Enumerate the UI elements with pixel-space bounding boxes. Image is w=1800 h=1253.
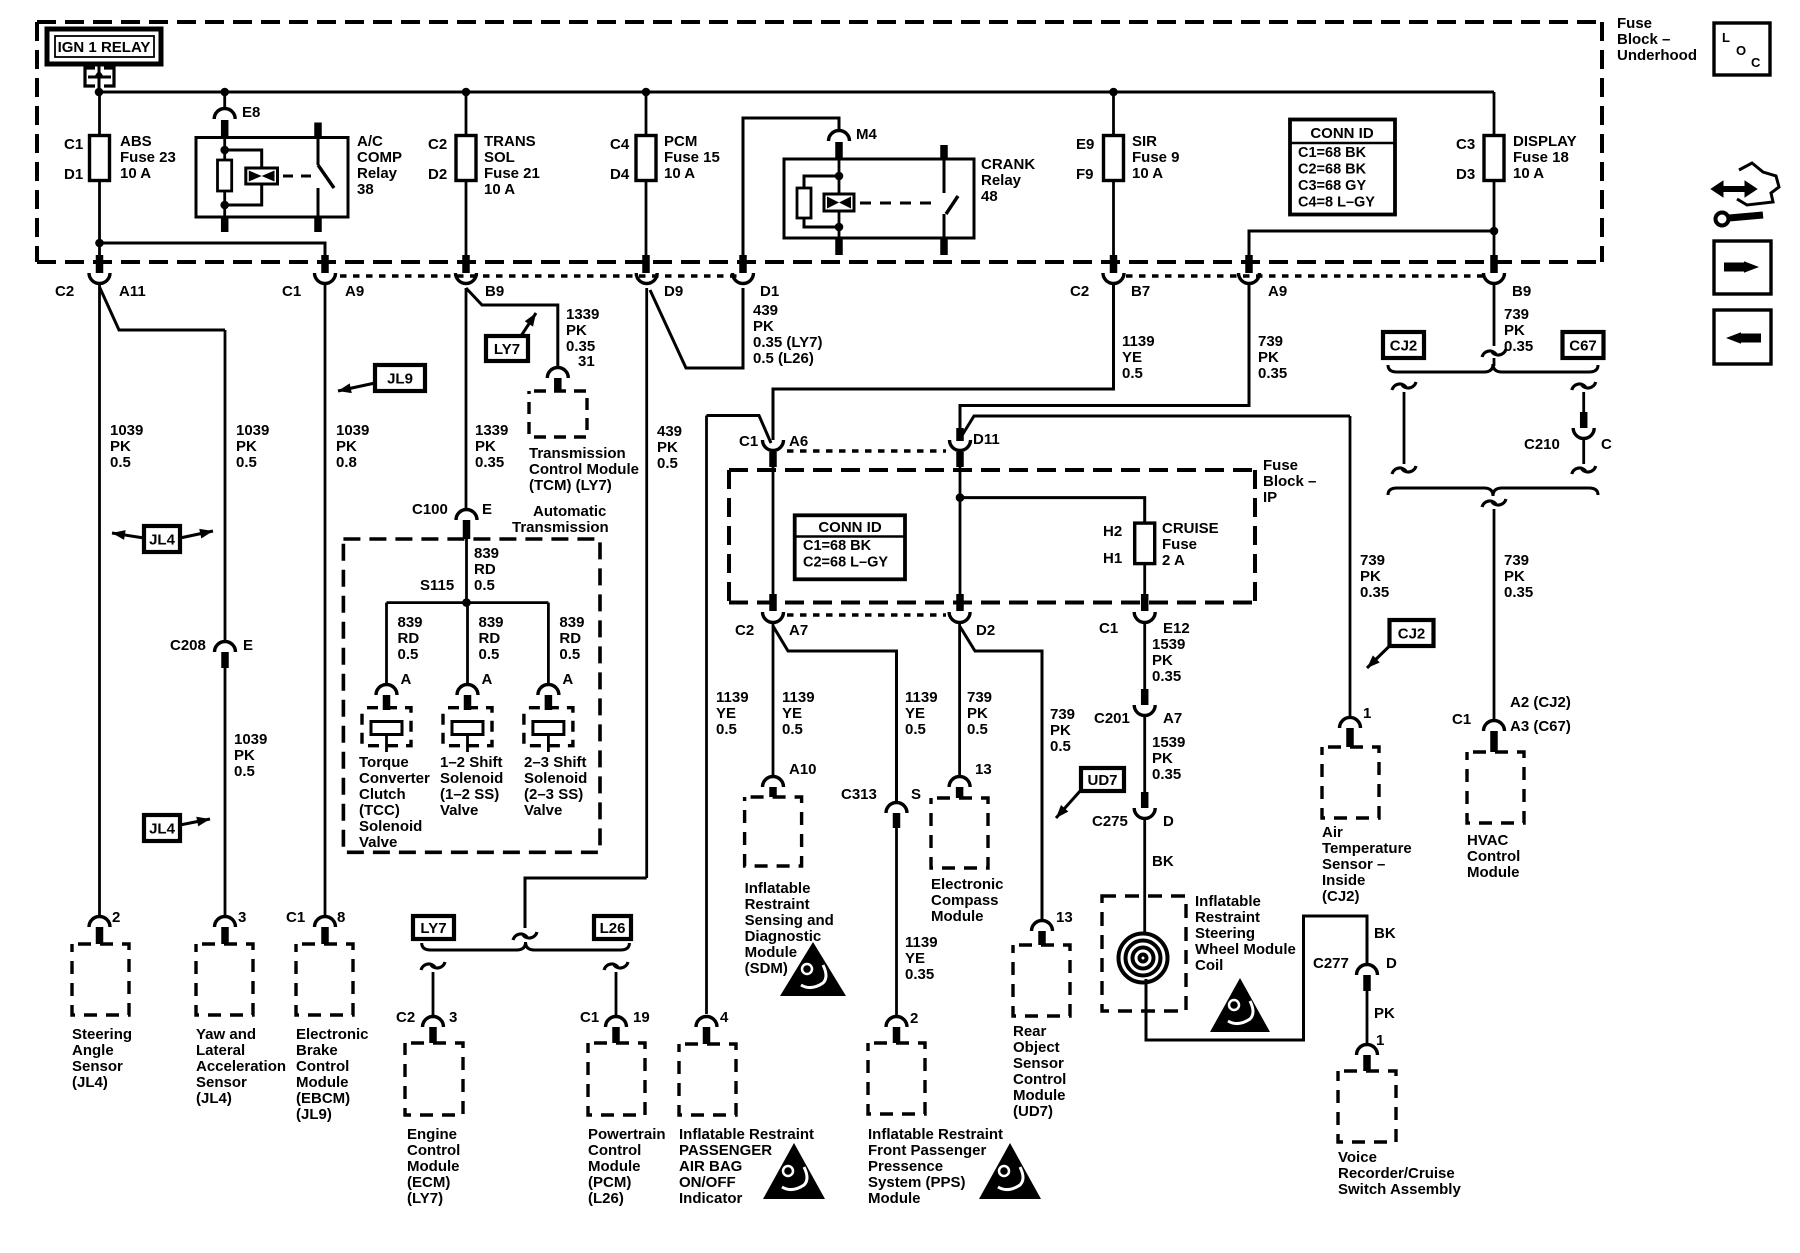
svg-text:PK: PK: [1504, 568, 1525, 585]
svg-text:Brake: Brake: [296, 1042, 338, 1059]
wire bus to PCM fuse: [645, 92, 648, 255]
svg-text:LY7: LY7: [420, 920, 446, 937]
svg-text:2 A: 2 A: [1162, 552, 1185, 569]
svg-text:(PCM): (PCM): [588, 1174, 631, 1191]
svg-text:Valve: Valve: [524, 802, 562, 819]
module Yaw and Lateral Acceleration Sensor: [196, 944, 253, 1015]
svg-text:C1: C1: [580, 1009, 599, 1026]
svg-text:Solenoid: Solenoid: [359, 818, 422, 835]
fuse SIR Fuse 9 10A: [1104, 136, 1124, 181]
svg-text:C1=68 BK: C1=68 BK: [803, 538, 872, 554]
svg-text:0.5: 0.5: [234, 763, 255, 780]
svg-text:Diagnostic: Diagnostic: [745, 928, 822, 945]
svg-text:739: 739: [967, 689, 992, 706]
svg-text:D9: D9: [664, 283, 683, 300]
svg-text:C100: C100: [412, 501, 448, 518]
svg-text:0.8: 0.8: [336, 454, 357, 471]
JL4 tag 2 with arrow: [144, 815, 180, 841]
svg-text:48: 48: [981, 188, 998, 205]
svg-text:Control: Control: [296, 1058, 349, 1075]
svg-text:Temperature: Temperature: [1322, 840, 1412, 857]
IGN 1 RELAY label box: [47, 29, 161, 64]
svg-text:RD: RD: [559, 630, 581, 647]
CJ2 tag box: [1383, 332, 1424, 358]
junction S115: [462, 598, 471, 607]
UD7 tag with arrow: [1081, 768, 1124, 791]
CRANK relay pins: [940, 145, 948, 159]
wire M4 feed: [743, 118, 839, 255]
fuse PCM Fuse 15 10A: [636, 136, 656, 181]
svg-text:Clutch: Clutch: [359, 786, 406, 803]
junction dot DISPLAY output: [1490, 227, 1499, 236]
svg-text:0.5: 0.5: [782, 721, 803, 738]
module PPS: [868, 1043, 925, 1114]
svg-text:O: O: [1736, 43, 1746, 58]
svg-text:Module: Module: [745, 944, 798, 961]
svg-text:739: 739: [1360, 552, 1385, 569]
brace LY7 L26 split: [422, 942, 630, 950]
svg-text:PK: PK: [236, 438, 257, 455]
svg-text:0.35: 0.35: [1504, 338, 1533, 355]
svg-text:1539: 1539: [1152, 734, 1185, 751]
svg-text:A3 (C67): A3 (C67): [1510, 718, 1571, 735]
wire ignition feed bus: [99, 91, 1494, 94]
svg-text:C201: C201: [1094, 710, 1130, 727]
connector M4: [829, 131, 850, 142]
relay A/C COMP Relay 38 box: [196, 138, 348, 218]
svg-text:Solenoid: Solenoid: [440, 770, 503, 787]
CONN ID table underhood: [1290, 120, 1395, 215]
wire C100 to S115: [465, 539, 468, 603]
svg-text:Inflatable Restraint: Inflatable Restraint: [679, 1126, 814, 1143]
svg-text:C210: C210: [1524, 436, 1560, 453]
svg-text:Rear: Rear: [1013, 1023, 1047, 1040]
svg-text:PK: PK: [1152, 750, 1173, 767]
wire D2 branch to rear object sensor: [960, 626, 1042, 919]
wire cruise fuse to E12: [1143, 564, 1146, 598]
svg-text:H1: H1: [1103, 550, 1122, 567]
svg-text:Pressence: Pressence: [868, 1158, 943, 1175]
svg-text:HVAC: HVAC: [1467, 832, 1509, 849]
svg-text:739: 739: [1504, 552, 1529, 569]
svg-text:C275: C275: [1092, 813, 1128, 830]
svg-text:PCM: PCM: [664, 133, 697, 150]
connector A9 ip: [1239, 273, 1260, 284]
fuse DISPLAY Fuse 18 10A: [1484, 136, 1504, 181]
warning triangle coil: [1210, 978, 1270, 1032]
svg-text:Steering: Steering: [72, 1026, 132, 1043]
junction dot cruise feed: [956, 493, 965, 502]
svg-text:D1: D1: [64, 166, 83, 183]
wire brace to ECM: [431, 962, 445, 968]
svg-text:YE: YE: [716, 705, 736, 722]
svg-text:Underhood: Underhood: [1617, 47, 1697, 64]
svg-text:Fuse 18: Fuse 18: [1513, 149, 1569, 166]
svg-text:Module: Module: [296, 1074, 349, 1091]
svg-text:D3: D3: [1456, 166, 1475, 183]
svg-text:10 A: 10 A: [484, 181, 515, 198]
svg-text:(JL9): (JL9): [296, 1106, 332, 1123]
svg-text:C1: C1: [739, 433, 758, 450]
svg-text:Inside: Inside: [1322, 872, 1365, 889]
svg-text:839: 839: [474, 545, 499, 562]
wire C275 BK to coil: [1143, 820, 1146, 934]
svg-text:Compass: Compass: [931, 892, 999, 909]
dotted connector row A7 D2: [787, 613, 946, 616]
svg-text:Engine: Engine: [407, 1126, 457, 1143]
svg-text:PK: PK: [110, 438, 131, 455]
LY7 tag with arrow: [486, 336, 528, 361]
svg-text:CONN ID: CONN ID: [1310, 125, 1374, 142]
svg-text:Sensor: Sensor: [1013, 1055, 1064, 1072]
module Steering Angle Sensor: [72, 944, 129, 1015]
svg-text:C313: C313: [841, 786, 877, 803]
service tool icon: [1713, 163, 1779, 226]
L26 tag: [594, 916, 631, 939]
svg-text:Steering: Steering: [1195, 925, 1255, 942]
svg-text:CJ2: CJ2: [1398, 626, 1426, 643]
svg-text:E8: E8: [242, 104, 260, 121]
svg-text:3: 3: [449, 1009, 457, 1026]
relay CRANK Relay 48 box: [784, 159, 974, 238]
svg-text:Sensor: Sensor: [72, 1058, 123, 1075]
svg-text:D2: D2: [976, 622, 995, 639]
terminal A 2-3 shift solenoid: [538, 685, 559, 696]
svg-text:C1: C1: [282, 283, 301, 300]
svg-text:COMP: COMP: [357, 149, 402, 166]
svg-text:YE: YE: [782, 705, 802, 722]
svg-text:Transmission: Transmission: [529, 445, 626, 462]
svg-text:JL4: JL4: [149, 532, 176, 549]
IGN 1 relay contact symbol: [98, 64, 101, 92]
svg-text:1039: 1039: [110, 422, 143, 439]
A/C relay switch: [317, 138, 320, 166]
svg-text:H2: H2: [1103, 523, 1122, 540]
svg-text:Lateral: Lateral: [196, 1042, 245, 1059]
svg-text:(EBCM): (EBCM): [296, 1090, 350, 1107]
svg-text:PK: PK: [1360, 568, 1381, 585]
svg-text:0.5: 0.5: [559, 646, 580, 663]
svg-text:0.5: 0.5: [1122, 365, 1143, 382]
svg-text:Restraint: Restraint: [1195, 909, 1260, 926]
svg-text:ABS: ABS: [120, 133, 152, 150]
svg-text:B9: B9: [485, 283, 504, 300]
svg-text:2: 2: [112, 909, 120, 926]
svg-text:S115: S115: [420, 577, 454, 594]
wire CJ2 drop: [1402, 382, 1416, 388]
wire ABS output branch to A9: [100, 243, 326, 255]
svg-text:10 A: 10 A: [1513, 165, 1544, 182]
wire A11 1039 PK to steering sensor: [98, 285, 101, 915]
wire coil to C277: [1146, 916, 1367, 1040]
brace CJ2 C67 top: [1388, 364, 1598, 372]
svg-text:C2: C2: [396, 1009, 415, 1026]
svg-text:Restraint: Restraint: [745, 896, 810, 913]
svg-text:C1: C1: [64, 136, 83, 153]
svg-text:2: 2: [910, 1010, 918, 1027]
solenoid 1-2 shift solenoid coil: [443, 708, 492, 746]
svg-text:B9: B9: [1512, 283, 1531, 300]
connector D9: [636, 273, 657, 284]
svg-text:0.35: 0.35: [1360, 584, 1389, 601]
module SDM: [745, 797, 802, 866]
break symbol B9: [1492, 349, 1506, 355]
dotted connector row A6 D11: [787, 449, 946, 452]
svg-text:0.5: 0.5: [905, 721, 926, 738]
solenoid 2-3 shift solenoid coil: [524, 708, 573, 746]
A/C relay coil wiring: [223, 138, 226, 161]
svg-text:0.35: 0.35: [1152, 766, 1181, 783]
wire D9 439 PK down: [645, 288, 648, 878]
svg-text:8: 8: [337, 909, 345, 926]
svg-text:Inflatable Restraint: Inflatable Restraint: [868, 1126, 1003, 1143]
wire ABS output down to connector C2 A11: [98, 243, 101, 255]
svg-text:0.5: 0.5: [474, 577, 495, 594]
svg-text:0.5: 0.5: [1050, 738, 1071, 755]
svg-text:10 A: 10 A: [1132, 165, 1163, 182]
svg-text:0.35: 0.35: [475, 454, 504, 471]
svg-text:A: A: [562, 671, 573, 688]
svg-text:CJ2: CJ2: [1390, 338, 1418, 355]
wire C208 to yaw sensor: [224, 668, 227, 915]
connector C1 A9: [315, 273, 336, 284]
JL4 tag with arrows: [144, 526, 180, 552]
svg-text:Relay: Relay: [357, 165, 398, 182]
svg-text:C2: C2: [55, 283, 74, 300]
wire tap to air temperature sensor: [961, 416, 1350, 437]
svg-text:RD: RD: [398, 630, 420, 647]
wire B9 739 PK down: [1493, 285, 1496, 346]
svg-text:Torque: Torque: [359, 754, 409, 771]
wire S115 to TCC solenoid: [385, 603, 388, 683]
wire bus to DISPLAY fuse: [1493, 92, 1496, 255]
svg-text:Converter: Converter: [359, 770, 430, 787]
module Voice Recorder Cruise Switch Assembly: [1338, 1071, 1396, 1142]
svg-text:Coil: Coil: [1195, 957, 1223, 974]
svg-text:1039: 1039: [236, 422, 269, 439]
svg-text:Acceleration: Acceleration: [196, 1058, 286, 1075]
svg-text:Fuse 9: Fuse 9: [1132, 149, 1180, 166]
svg-text:19: 19: [633, 1009, 650, 1026]
wire A6 into IP fuse block: [769, 452, 777, 467]
wire E12 1539 PK: [1143, 624, 1146, 689]
svg-text:Switch Assembly: Switch Assembly: [1338, 1181, 1461, 1198]
JL9 tag with arrow: [375, 365, 425, 391]
svg-text:0.35 (LY7): 0.35 (LY7): [753, 334, 823, 351]
A/C relay pins: [314, 123, 322, 138]
svg-text:Angle: Angle: [72, 1042, 114, 1059]
wire B9 to TCM terminal 31: [466, 288, 558, 366]
svg-text:PK: PK: [475, 438, 496, 455]
svg-text:C2=68 BK: C2=68 BK: [1298, 162, 1367, 178]
svg-text:Fuse 21: Fuse 21: [484, 165, 540, 182]
svg-text:PK: PK: [967, 705, 988, 722]
svg-text:D2: D2: [428, 166, 447, 183]
wire A7 branch to C313: [773, 626, 897, 801]
module Rear Object Sensor Control Module: [1013, 945, 1070, 1016]
svg-text:839: 839: [398, 614, 423, 631]
connector C201 A7: [1141, 689, 1149, 705]
svg-text:1: 1: [1376, 1032, 1384, 1049]
svg-text:Fuse: Fuse: [1617, 15, 1652, 32]
forward arrow box: [1714, 241, 1771, 294]
svg-text:C1=68 BK: C1=68 BK: [1298, 145, 1367, 161]
wire DISPLAY output branch to A9: [1249, 231, 1494, 255]
svg-text:Control Module: Control Module: [529, 461, 639, 478]
svg-text:PK: PK: [657, 439, 678, 456]
svg-text:S: S: [911, 786, 921, 803]
terminal A 1-2 shift solenoid: [457, 685, 478, 696]
svg-text:Air: Air: [1322, 824, 1343, 841]
svg-text:739: 739: [1504, 306, 1529, 323]
svg-text:C3=68 GY: C3=68 GY: [1298, 178, 1366, 194]
fuse ABS Fuse 23 10A: [90, 136, 110, 181]
svg-text:TRANS: TRANS: [484, 133, 536, 150]
svg-text:Module: Module: [407, 1158, 460, 1175]
module TCM: [529, 391, 587, 437]
svg-text:RD: RD: [479, 630, 501, 647]
svg-text:C2: C2: [428, 136, 447, 153]
svg-text:A7: A7: [1163, 710, 1182, 727]
svg-text:Solenoid: Solenoid: [524, 770, 587, 787]
svg-text:0.5: 0.5: [716, 721, 737, 738]
svg-text:Wheel Module: Wheel Module: [1195, 941, 1296, 958]
svg-text:BK: BK: [1374, 925, 1396, 942]
junction dot ABS output: [95, 239, 104, 248]
svg-text:PK: PK: [336, 438, 357, 455]
svg-text:F9: F9: [1076, 166, 1094, 183]
wire B9 1339 PK down to C100: [465, 288, 468, 508]
fuse block underhood dashed outline: [37, 20, 1602, 24]
svg-text:1139: 1139: [1122, 333, 1155, 350]
svg-text:A: A: [401, 671, 412, 688]
svg-text:D4: D4: [610, 166, 630, 183]
svg-text:0.5: 0.5: [236, 454, 257, 471]
module steering wheel coil dashed box: [1102, 896, 1186, 1011]
svg-text:Valve: Valve: [359, 834, 397, 851]
svg-text:C2=68 L–GY: C2=68 L–GY: [803, 555, 888, 571]
svg-text:PK: PK: [234, 747, 255, 764]
wire S115 to 2-3 shift solenoid: [547, 603, 550, 683]
svg-text:C208: C208: [170, 637, 206, 654]
break symbol above brace: [523, 932, 537, 938]
svg-text:31: 31: [578, 353, 595, 370]
wire C313 to PPS: [895, 828, 898, 1016]
svg-text:(LY7): (LY7): [407, 1190, 443, 1207]
module PASSENGER AIR BAG indicator: [679, 1044, 736, 1115]
svg-text:M4: M4: [856, 126, 877, 143]
svg-text:D: D: [1163, 813, 1174, 830]
svg-text:Inflatable: Inflatable: [1195, 893, 1261, 910]
svg-text:Transmission: Transmission: [512, 519, 609, 536]
svg-text:C4=8 L–GY: C4=8 L–GY: [1298, 195, 1375, 211]
connector C2 A11: [89, 273, 110, 284]
A/C relay coil resistor: [218, 160, 232, 191]
svg-text:YE: YE: [905, 950, 925, 967]
svg-text:A: A: [482, 671, 493, 688]
module HVAC Control Module: [1467, 752, 1524, 823]
C67 tag box: [1563, 332, 1604, 358]
svg-text:BK: BK: [1152, 853, 1174, 870]
svg-text:RD: RD: [474, 561, 496, 578]
svg-text:Fuse 23: Fuse 23: [120, 149, 176, 166]
svg-text:0.5 (L26): 0.5 (L26): [753, 350, 814, 367]
wire A9 739 PK to D11: [960, 285, 1249, 428]
CRANK relay solenoid xbox: [824, 194, 854, 211]
svg-text:AIR BAG: AIR BAG: [679, 1158, 742, 1175]
svg-text:E9: E9: [1076, 136, 1094, 153]
svg-text:L26: L26: [600, 920, 626, 937]
svg-text:CRUISE: CRUISE: [1162, 520, 1219, 537]
svg-text:D11: D11: [973, 431, 1000, 448]
svg-text:A11: A11: [119, 283, 146, 300]
svg-text:2–3 Shift: 2–3 Shift: [524, 754, 587, 771]
svg-text:739: 739: [1258, 333, 1283, 350]
connector C2 B7: [1103, 273, 1124, 284]
svg-text:Module: Module: [588, 1158, 641, 1175]
svg-text:D1: D1: [760, 283, 779, 300]
CRANK relay actuation dashes: [860, 202, 938, 205]
svg-text:PK: PK: [1050, 722, 1071, 739]
svg-text:439: 439: [753, 302, 778, 319]
svg-text:L: L: [1722, 30, 1730, 45]
svg-text:(2–3 SS): (2–3 SS): [524, 786, 583, 803]
svg-text:SIR: SIR: [1132, 133, 1157, 150]
wire D9 to LY7/L26 brace: [525, 878, 647, 928]
svg-text:SOL: SOL: [484, 149, 515, 166]
svg-text:Sensor –: Sensor –: [1322, 856, 1385, 873]
svg-text:(SDM): (SDM): [745, 960, 788, 977]
wire S115 to 1-2 shift solenoid: [466, 603, 469, 683]
module Electronic Compass Module: [931, 798, 988, 868]
svg-text:1139: 1139: [905, 689, 938, 706]
svg-text:Voice: Voice: [1338, 1149, 1377, 1166]
connector C275 D: [1141, 792, 1149, 808]
svg-text:0.35: 0.35: [1258, 365, 1287, 382]
solenoid TCC solenoid coil: [362, 708, 411, 746]
A/C relay solenoid xbox: [246, 168, 278, 184]
svg-text:JL9: JL9: [387, 371, 413, 388]
wire brace to HVAC: [1492, 499, 1506, 505]
svg-text:1039: 1039: [234, 731, 267, 748]
connector B9 display: [1484, 273, 1505, 284]
svg-text:(ECM): (ECM): [407, 1174, 450, 1191]
svg-text:Relay: Relay: [981, 172, 1022, 189]
svg-text:0.5: 0.5: [479, 646, 500, 663]
svg-text:0.5: 0.5: [110, 454, 131, 471]
warning triangle SDM: [780, 942, 846, 996]
connector D1: [733, 273, 754, 284]
svg-text:A2 (CJ2): A2 (CJ2): [1510, 694, 1571, 711]
svg-text:13: 13: [975, 761, 992, 778]
wire A11 branch to yaw sensor: [100, 287, 226, 330]
svg-text:Sensing and: Sensing and: [745, 912, 834, 929]
svg-text:(JL4): (JL4): [196, 1090, 232, 1107]
svg-text:Control: Control: [407, 1142, 460, 1159]
Fuse Block IP dashed outline: [729, 468, 1255, 472]
svg-text:E: E: [482, 501, 492, 518]
svg-text:Module: Module: [868, 1190, 921, 1207]
module ECM: [405, 1043, 463, 1115]
svg-text:C: C: [1601, 436, 1612, 453]
svg-text:C1: C1: [286, 909, 305, 926]
connector E8: [223, 92, 226, 107]
fuse TRANS SOL Fuse 21 10A: [456, 136, 476, 181]
A/C relay actuation dashes: [283, 175, 312, 178]
svg-text:Front Passenger: Front Passenger: [868, 1142, 987, 1159]
svg-text:Yaw and: Yaw and: [196, 1026, 256, 1043]
svg-text:System (PPS): System (PPS): [868, 1174, 966, 1191]
